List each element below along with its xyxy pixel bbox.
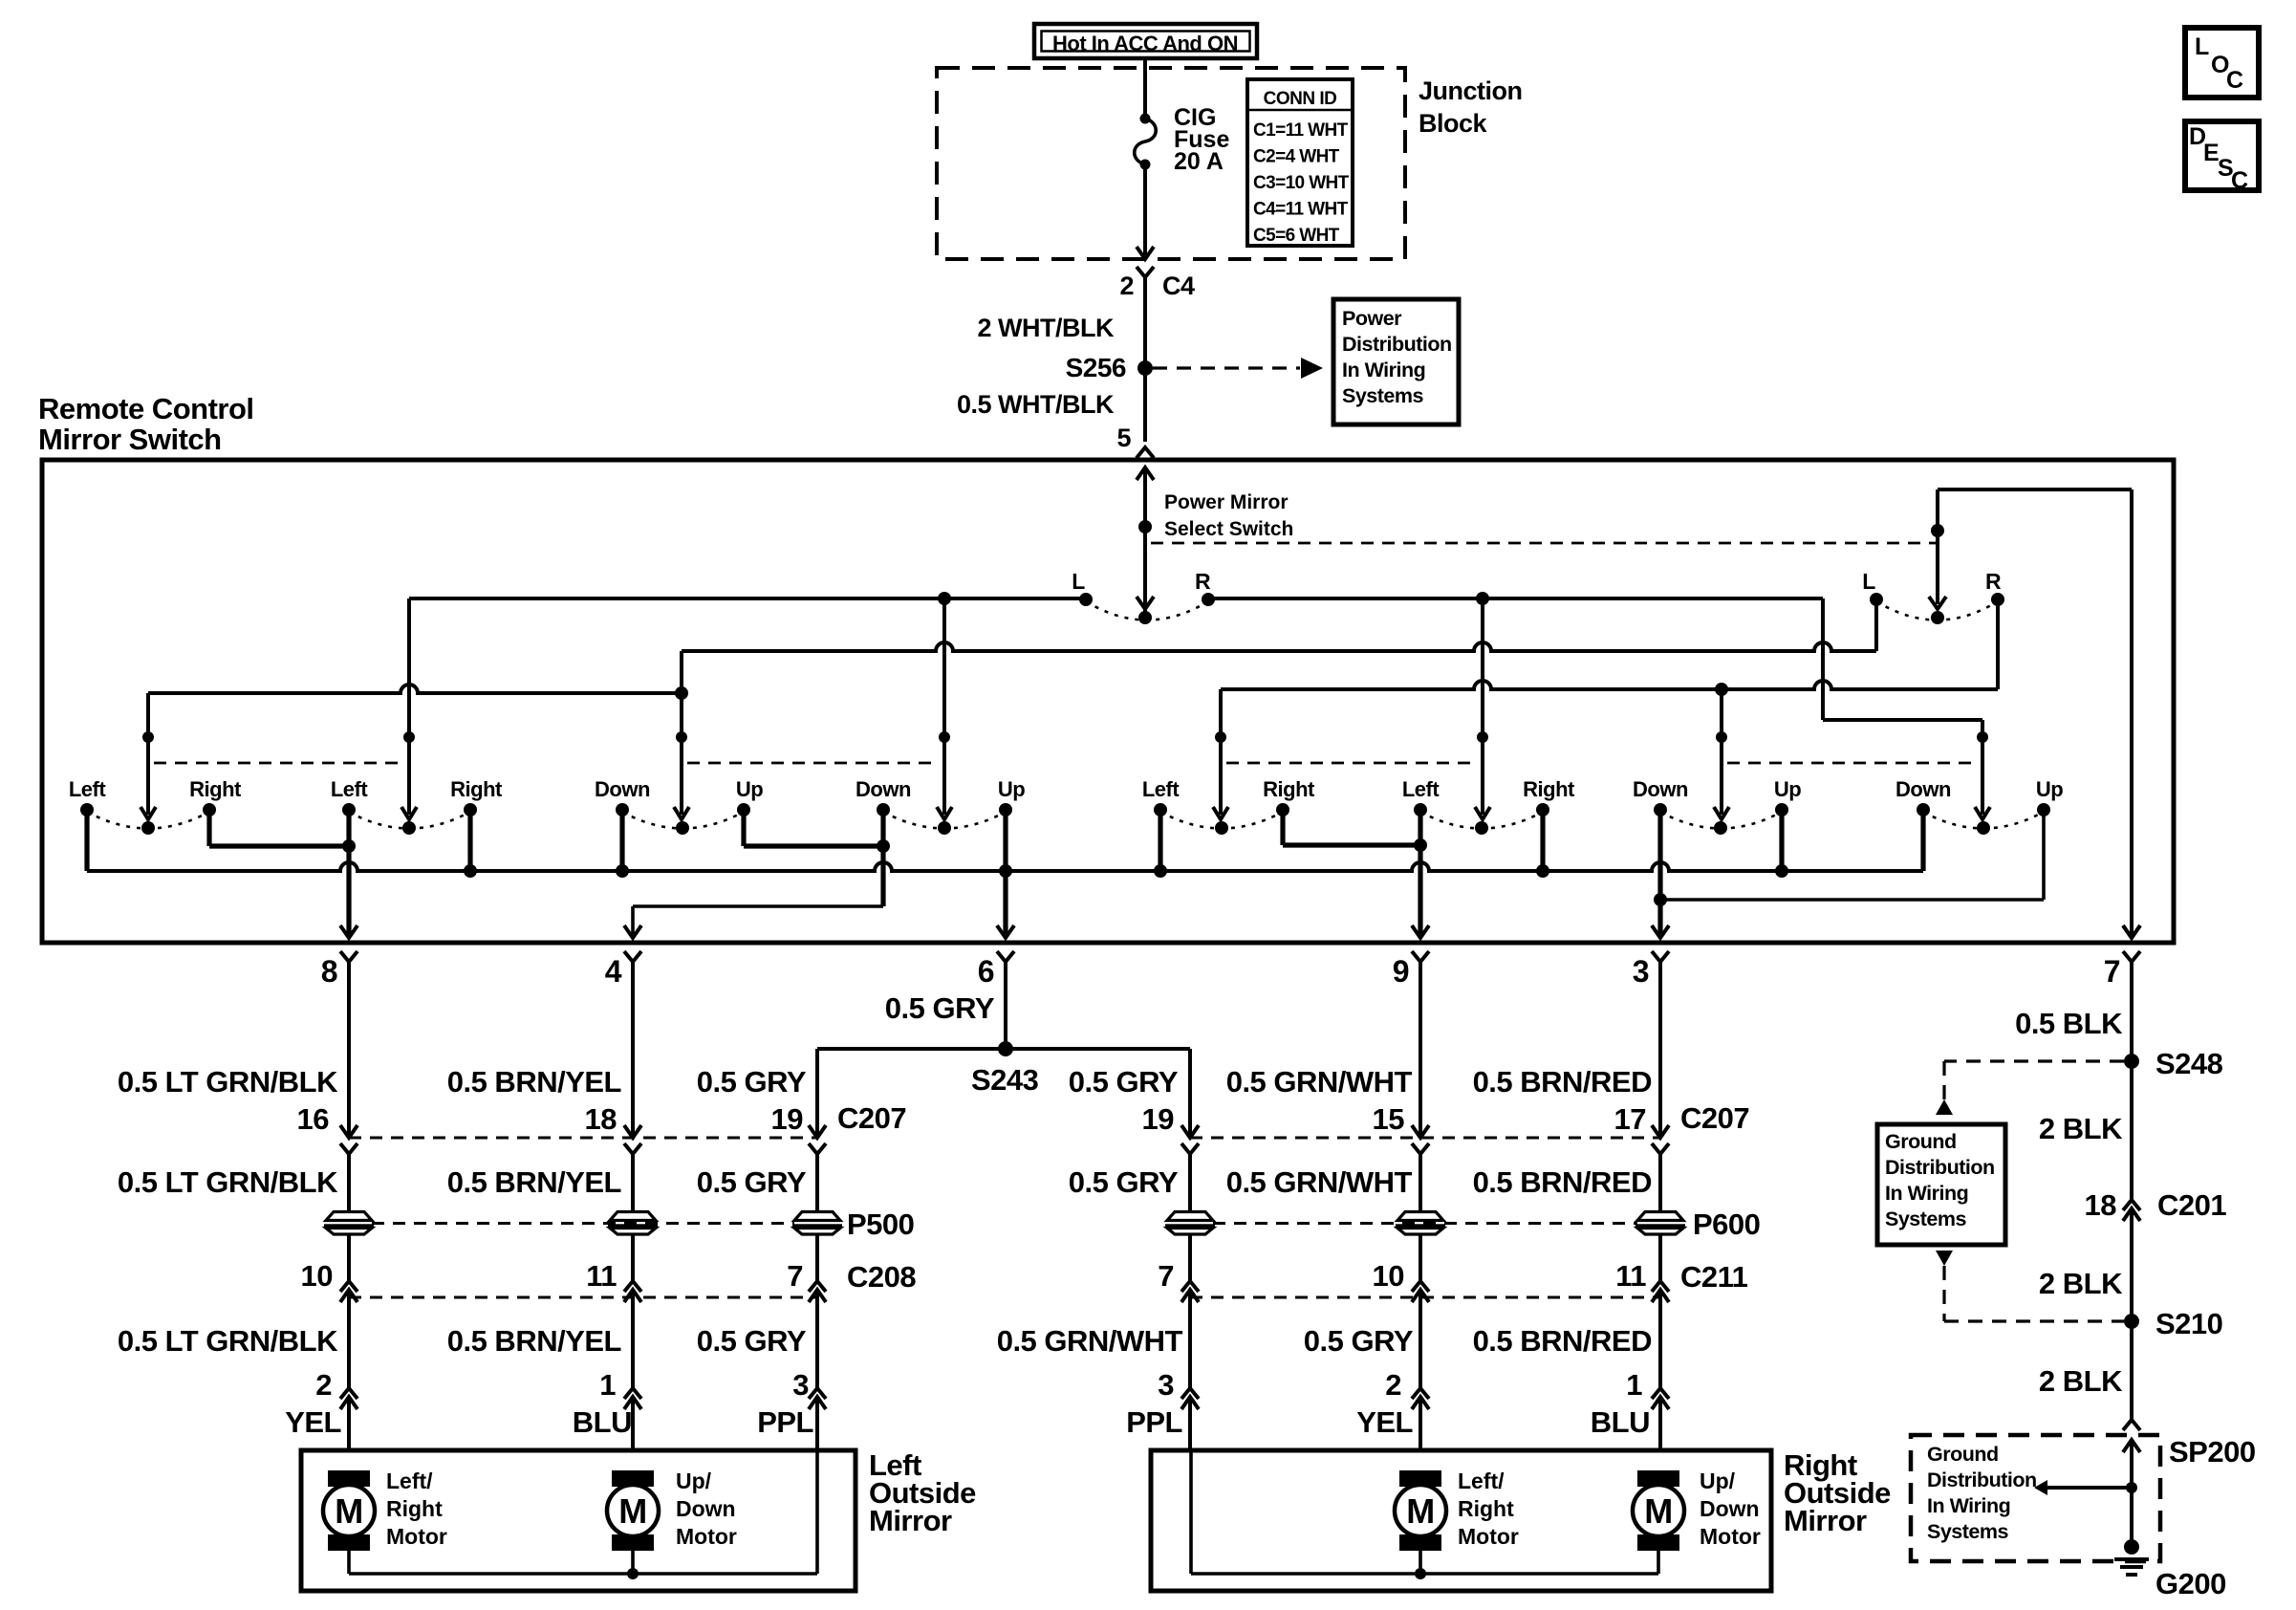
svg-text:Down: Down xyxy=(676,1496,736,1521)
svg-text:Ground: Ground xyxy=(1927,1443,1999,1466)
svg-text:S210: S210 xyxy=(2155,1307,2222,1340)
svg-text:P600: P600 xyxy=(1693,1207,1760,1241)
svg-text:Block: Block xyxy=(1419,109,1488,138)
svg-text:Distribution: Distribution xyxy=(1885,1156,1995,1179)
svg-text:0.5 BRN/YEL: 0.5 BRN/YEL xyxy=(447,1165,621,1199)
svg-text:7: 7 xyxy=(787,1259,803,1293)
svg-text:1: 1 xyxy=(1626,1368,1642,1402)
svg-text:16: 16 xyxy=(297,1102,330,1136)
svg-text:0.5 LT GRN/BLK: 0.5 LT GRN/BLK xyxy=(118,1324,338,1358)
svg-text:4: 4 xyxy=(605,954,622,989)
svg-text:2: 2 xyxy=(315,1368,332,1402)
svg-text:Right: Right xyxy=(1263,777,1315,801)
svg-text:Motor: Motor xyxy=(676,1524,737,1549)
svg-text:Motor: Motor xyxy=(1458,1524,1519,1549)
svg-text:BLU: BLU xyxy=(573,1405,632,1439)
svg-text:0.5 BRN/RED: 0.5 BRN/RED xyxy=(1473,1065,1653,1099)
svg-text:M: M xyxy=(1406,1491,1435,1531)
svg-text:C211: C211 xyxy=(1680,1260,1748,1294)
svg-text:Up: Up xyxy=(998,777,1025,801)
svg-text:10: 10 xyxy=(1373,1259,1404,1293)
svg-text:PPL: PPL xyxy=(1126,1405,1182,1439)
svg-text:S243: S243 xyxy=(971,1063,1039,1097)
svg-text:0.5 GRN/WHT: 0.5 GRN/WHT xyxy=(997,1324,1183,1358)
svg-text:19: 19 xyxy=(771,1102,804,1136)
svg-text:C207: C207 xyxy=(837,1101,906,1135)
svg-text:2 BLK: 2 BLK xyxy=(2039,1112,2123,1145)
svg-text:Power: Power xyxy=(1342,307,1402,330)
svg-text:Hot In ACC And ON: Hot In ACC And ON xyxy=(1052,32,1238,55)
svg-text:0.5 GRY: 0.5 GRY xyxy=(697,1165,807,1199)
svg-text:Left/: Left/ xyxy=(386,1469,433,1493)
svg-text:PPL: PPL xyxy=(757,1405,813,1439)
svg-text:C2=4 WHT: C2=4 WHT xyxy=(1253,147,1340,167)
svg-text:0.5 GRY: 0.5 GRY xyxy=(1069,1165,1179,1199)
svg-text:8: 8 xyxy=(321,954,337,989)
svg-text:Mirror: Mirror xyxy=(869,1504,952,1537)
svg-text:1: 1 xyxy=(599,1368,616,1402)
svg-text:Down: Down xyxy=(856,777,911,801)
svg-text:Right: Right xyxy=(1458,1496,1514,1521)
svg-text:L: L xyxy=(2195,33,2209,60)
svg-text:0.5 GRY: 0.5 GRY xyxy=(1304,1324,1414,1358)
svg-text:Ground: Ground xyxy=(1885,1130,1957,1153)
svg-text:Systems: Systems xyxy=(1927,1520,2008,1543)
svg-text:C208: C208 xyxy=(847,1260,916,1294)
svg-text:15: 15 xyxy=(1373,1102,1405,1136)
svg-text:Up: Up xyxy=(2036,777,2063,801)
svg-text:Distribution: Distribution xyxy=(1927,1469,2037,1491)
svg-text:R: R xyxy=(1985,569,2002,594)
svg-text:2 BLK: 2 BLK xyxy=(2039,1267,2123,1300)
svg-text:In Wiring: In Wiring xyxy=(1885,1182,1968,1205)
svg-text:M: M xyxy=(335,1491,363,1531)
svg-text:Mirror: Mirror xyxy=(1784,1504,1867,1537)
svg-text:19: 19 xyxy=(1142,1102,1175,1136)
svg-text:11: 11 xyxy=(1615,1259,1646,1293)
svg-text:Systems: Systems xyxy=(1342,384,1423,407)
svg-text:7: 7 xyxy=(1158,1259,1174,1293)
svg-text:Remote Control: Remote Control xyxy=(38,392,254,425)
svg-text:0.5 GRY: 0.5 GRY xyxy=(1069,1065,1179,1099)
svg-text:C207: C207 xyxy=(1680,1101,1749,1135)
svg-text:3: 3 xyxy=(792,1368,809,1402)
svg-text:Left/: Left/ xyxy=(1458,1469,1505,1493)
svg-text:Motor: Motor xyxy=(386,1524,447,1549)
svg-text:C201: C201 xyxy=(2157,1188,2226,1222)
svg-text:C3=10 WHT: C3=10 WHT xyxy=(1253,173,1350,193)
svg-text:0.5 GRY: 0.5 GRY xyxy=(697,1324,807,1358)
svg-text:0.5 BRN/RED: 0.5 BRN/RED xyxy=(1473,1324,1653,1358)
svg-text:18: 18 xyxy=(585,1102,617,1136)
svg-text:C4: C4 xyxy=(1162,272,1195,300)
svg-text:CONN ID: CONN ID xyxy=(1264,89,1337,109)
svg-text:Left: Left xyxy=(69,777,107,801)
svg-text:18: 18 xyxy=(2085,1188,2117,1222)
svg-text:Down: Down xyxy=(595,777,650,801)
svg-text:E: E xyxy=(2203,140,2219,166)
svg-text:Junction: Junction xyxy=(1419,76,1523,105)
svg-text:Right: Right xyxy=(386,1496,443,1521)
svg-text:Down: Down xyxy=(1895,777,1951,801)
svg-text:C1=11 WHT: C1=11 WHT xyxy=(1253,120,1349,141)
svg-text:Down: Down xyxy=(1700,1496,1760,1521)
svg-text:YEL: YEL xyxy=(1356,1405,1413,1439)
svg-text:Mirror Switch: Mirror Switch xyxy=(38,423,222,456)
svg-text:0.5 GRN/WHT: 0.5 GRN/WHT xyxy=(1226,1065,1413,1099)
svg-text:0.5 GRY: 0.5 GRY xyxy=(697,1065,807,1099)
svg-text:YEL: YEL xyxy=(285,1405,341,1439)
svg-text:L: L xyxy=(1862,569,1875,594)
svg-text:S256: S256 xyxy=(1066,353,1126,382)
svg-text:Right: Right xyxy=(189,777,242,801)
svg-text:3: 3 xyxy=(1633,954,1649,989)
svg-text:C: C xyxy=(2226,67,2243,94)
svg-text:Up/: Up/ xyxy=(1700,1469,1736,1493)
svg-text:G200: G200 xyxy=(2155,1567,2226,1600)
svg-text:9: 9 xyxy=(1393,954,1409,989)
svg-text:5: 5 xyxy=(1116,424,1131,452)
svg-text:M: M xyxy=(618,1491,647,1531)
svg-text:0.5 BRN/YEL: 0.5 BRN/YEL xyxy=(447,1065,621,1099)
svg-text:Power Mirror: Power Mirror xyxy=(1164,491,1289,513)
svg-text:20 A: 20 A xyxy=(1174,148,1224,175)
svg-text:C4=11 WHT: C4=11 WHT xyxy=(1253,200,1349,220)
svg-text:Up: Up xyxy=(1774,777,1801,801)
svg-text:C: C xyxy=(2231,167,2248,194)
svg-text:R: R xyxy=(1195,569,1211,594)
svg-text:In Wiring: In Wiring xyxy=(1342,359,1425,381)
svg-text:3: 3 xyxy=(1158,1368,1174,1402)
svg-text:Systems: Systems xyxy=(1885,1207,1966,1230)
svg-text:Left: Left xyxy=(1402,777,1440,801)
svg-text:Up: Up xyxy=(736,777,763,801)
svg-text:0.5 GRY: 0.5 GRY xyxy=(885,991,995,1025)
svg-text:7: 7 xyxy=(2104,954,2120,989)
svg-text:S248: S248 xyxy=(2155,1047,2223,1080)
svg-text:2 BLK: 2 BLK xyxy=(2039,1364,2123,1398)
svg-text:0.5 BRN/YEL: 0.5 BRN/YEL xyxy=(447,1324,621,1358)
svg-text:2 WHT/BLK: 2 WHT/BLK xyxy=(978,314,1115,342)
svg-text:0.5 LT GRN/BLK: 0.5 LT GRN/BLK xyxy=(118,1165,338,1199)
svg-text:SP200: SP200 xyxy=(2169,1435,2256,1469)
svg-text:M: M xyxy=(1644,1491,1673,1531)
svg-text:0.5 BRN/RED: 0.5 BRN/RED xyxy=(1473,1165,1653,1199)
svg-text:BLU: BLU xyxy=(1591,1405,1650,1439)
svg-text:11: 11 xyxy=(586,1259,617,1293)
svg-text:Right: Right xyxy=(1523,777,1575,801)
svg-text:L: L xyxy=(1072,569,1085,594)
svg-text:Distribution: Distribution xyxy=(1342,333,1452,356)
svg-text:C5=6 WHT: C5=6 WHT xyxy=(1253,226,1340,246)
svg-text:Left: Left xyxy=(331,777,369,801)
svg-text:2: 2 xyxy=(1119,272,1134,300)
svg-text:17: 17 xyxy=(1614,1102,1646,1136)
svg-text:Motor: Motor xyxy=(1700,1524,1761,1549)
svg-text:0.5 WHT/BLK: 0.5 WHT/BLK xyxy=(957,390,1115,419)
svg-text:0.5 LT GRN/BLK: 0.5 LT GRN/BLK xyxy=(118,1065,338,1099)
svg-text:0.5 BLK: 0.5 BLK xyxy=(2015,1007,2123,1040)
svg-text:10: 10 xyxy=(301,1259,333,1293)
svg-text:2: 2 xyxy=(1385,1368,1401,1402)
svg-text:Up/: Up/ xyxy=(676,1469,712,1493)
svg-text:Select Switch: Select Switch xyxy=(1164,518,1293,540)
svg-text:Right: Right xyxy=(450,777,503,801)
svg-text:P500: P500 xyxy=(847,1207,914,1241)
svg-text:0.5 GRN/WHT: 0.5 GRN/WHT xyxy=(1226,1165,1413,1199)
svg-text:Down: Down xyxy=(1633,777,1688,801)
svg-text:Left: Left xyxy=(1142,777,1180,801)
svg-text:6: 6 xyxy=(978,954,994,989)
svg-text:In Wiring: In Wiring xyxy=(1927,1494,2010,1517)
